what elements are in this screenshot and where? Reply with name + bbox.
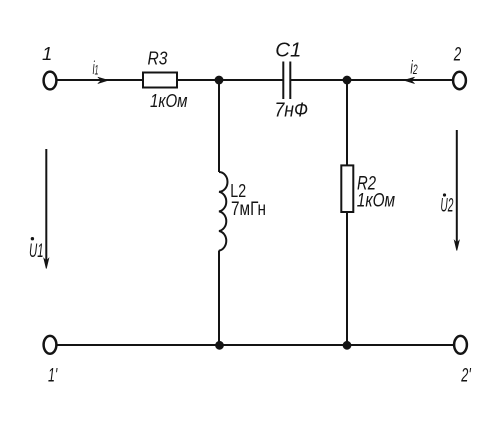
node B bbox=[343, 76, 352, 85]
svg-text:2': 2' bbox=[461, 365, 472, 387]
current arrow i2 bbox=[404, 77, 415, 84]
svg-text:U2: U2 bbox=[440, 196, 453, 217]
wire: node A down to L2 top bbox=[218, 80, 220, 172]
svg-text:2: 2 bbox=[453, 43, 461, 65]
node D (bottom right junction) bbox=[343, 341, 352, 350]
label U1 bbox=[29, 237, 44, 262]
svg-text:1': 1' bbox=[48, 364, 58, 386]
svg-text:1кОм: 1кОм bbox=[357, 190, 395, 211]
voltage arrow U1 bbox=[44, 149, 49, 269]
resistor R3 bbox=[143, 73, 177, 88]
terminal 2 bbox=[453, 72, 466, 89]
terminal 2' bbox=[454, 336, 467, 354]
svg-text:i1: i1 bbox=[93, 58, 99, 78]
wire: R2 bottom to bottom node bbox=[346, 212, 348, 345]
svg-text:U1: U1 bbox=[29, 240, 44, 262]
svg-text:i2: i2 bbox=[410, 58, 417, 78]
wire: C1 right plate to terminal 2 bbox=[291, 79, 453, 81]
wire: R3 to C1 left plate bbox=[178, 79, 283, 81]
svg-text:7мГн: 7мГн bbox=[231, 199, 266, 220]
wire: L2 bottom to bottom node bbox=[218, 251, 220, 346]
svg-text:7нФ: 7нФ bbox=[275, 100, 309, 122]
node C (bottom left junction) bbox=[215, 341, 224, 350]
svg-text:1: 1 bbox=[42, 43, 52, 64]
terminal 1' bbox=[44, 336, 57, 354]
resistor R2 bbox=[341, 165, 353, 212]
current arrow i1 bbox=[98, 77, 109, 84]
voltage arrow U2 bbox=[454, 130, 459, 251]
svg-text:L2: L2 bbox=[230, 180, 246, 201]
terminal 1 bbox=[44, 72, 57, 90]
wire: bottom rail 1' to 2' bbox=[57, 344, 454, 346]
wire: node B down to R2 top bbox=[346, 80, 348, 166]
svg-text:R3: R3 bbox=[148, 48, 169, 69]
wire: terminal 1 to R3 bbox=[57, 79, 143, 81]
capacitor C1 bbox=[283, 62, 290, 100]
svg-text:C1: C1 bbox=[275, 40, 301, 62]
svg-text:1кОм: 1кОм bbox=[150, 91, 188, 111]
label U2 bbox=[440, 193, 453, 216]
node A bbox=[215, 76, 224, 85]
inductor L2 bbox=[219, 172, 227, 251]
